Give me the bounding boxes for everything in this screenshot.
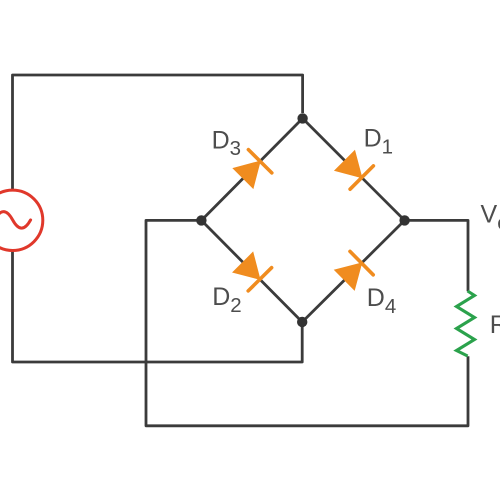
node left [196, 215, 206, 225]
wire: bridge edge left-top [201, 118, 302, 220]
wire: right node to top of load resistor [405, 220, 468, 291]
wire: left node to bottom of load resistor [146, 220, 468, 425]
svg-text:Vo: Vo [481, 201, 500, 235]
diode D1 [335, 151, 374, 190]
node top [297, 113, 307, 123]
wire: bridge edge left-bottom [201, 220, 302, 322]
node bottom [297, 317, 307, 327]
svg-text:D1: D1 [364, 125, 393, 159]
svg-text:D3: D3 [212, 126, 241, 160]
svg-text:D4: D4 [367, 284, 396, 318]
wire: bridge edge bottom-right [302, 220, 404, 322]
wire: bridge edge top-right [303, 118, 405, 220]
wire top: AC source top to bridge top node [13, 75, 303, 190]
resistor R (load) [457, 291, 475, 356]
diode D3 [233, 150, 271, 189]
node right [399, 215, 409, 225]
wire bottom-left: AC source bottom to bridge bottom node [13, 251, 303, 362]
svg-text:R: R [490, 311, 500, 339]
svg-text:D2: D2 [212, 283, 241, 317]
diode D2 [233, 252, 272, 291]
diode D4 [335, 251, 374, 290]
AC voltage source [0, 190, 43, 250]
